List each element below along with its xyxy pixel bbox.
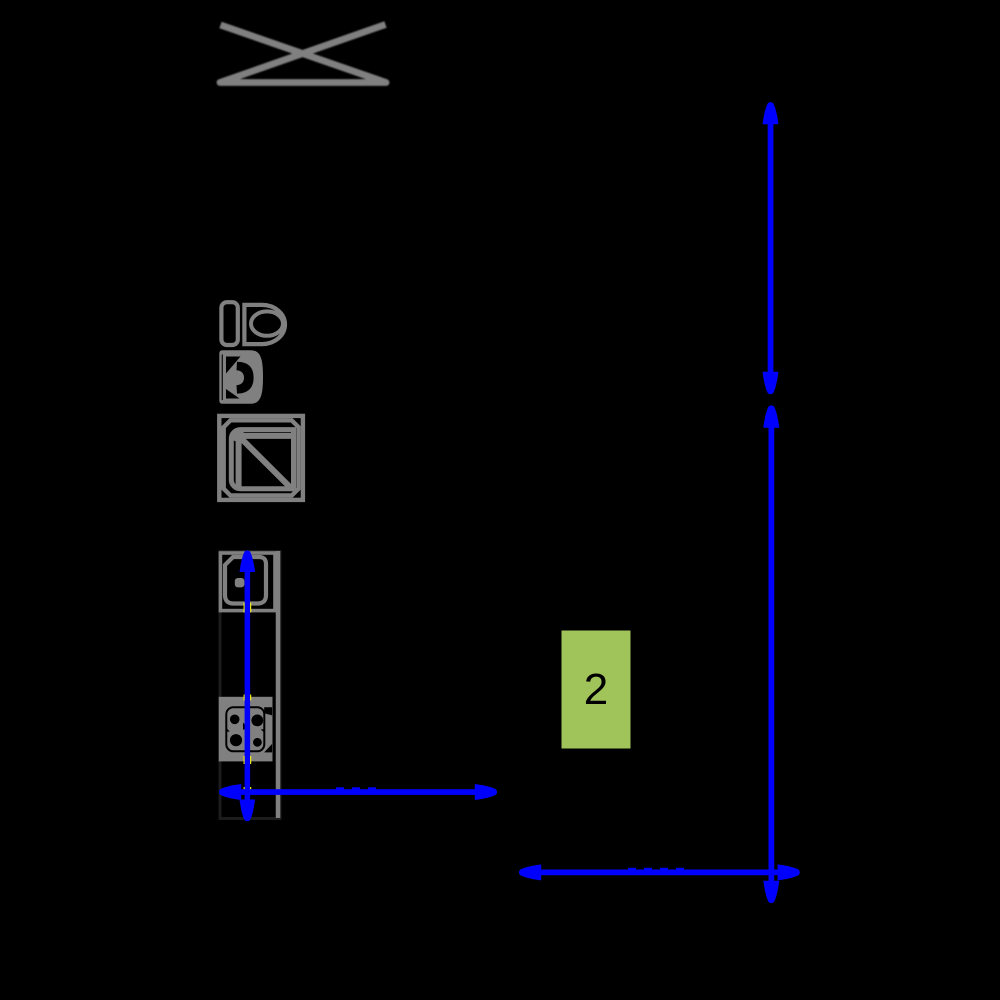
room label 2	[562, 631, 631, 749]
counter right edge (gray)	[276, 551, 281, 818]
dimension arrow: tall vertical top (right)	[763, 102, 779, 394]
dimension arrow: kitchen horizontal	[219, 784, 497, 800]
washbasin	[219, 350, 263, 404]
yellow artifacts under kitchen arrow	[244, 603, 252, 794]
dimension arrow: bottom horizontal	[519, 864, 800, 880]
stove	[219, 697, 273, 762]
kitchen sink	[220, 553, 275, 611]
dimension arrow: kitchen vertical	[240, 550, 256, 821]
kitchen counter (dark outline)	[220, 552, 280, 819]
toilet	[221, 302, 285, 345]
shower	[219, 416, 303, 500]
svg-text:2: 2	[584, 665, 608, 714]
dimension arrow: tall vertical bottom (right)	[763, 405, 779, 903]
